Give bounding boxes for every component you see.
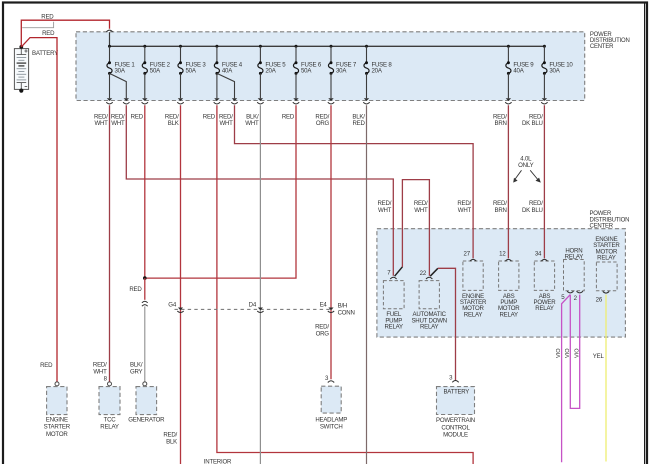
svg-text:HEADLAMP: HEADLAMP [315,416,347,423]
junction dot fuse column 3 [179,45,182,48]
PDC1 output connector at x=296.0 [293,98,298,101]
svg-text:G4: G4 [168,301,177,308]
PDC1 output connector at x=366.5 [364,98,369,101]
PDC1 output connector at x=260.4 [258,98,263,101]
junction dot generator branch [143,276,147,280]
svg-text:BATTERY: BATTERY [444,390,470,396]
wire RED junction to inline connector [144,278,146,300]
svg-text:50A: 50A [186,68,197,75]
junction dot fuse column 9 [507,45,510,48]
wire RED/ORG fuse7 to headlamp switch [330,105,332,379]
wire RED battery to PDC input [21,20,109,47]
svg-text:WHT: WHT [245,120,259,127]
PDC1 output connector at x=144.8 [142,98,147,101]
svg-text:RED: RED [41,13,54,20]
wire RED fuse2 to junction [144,105,146,278]
arrow to RED/BRN wire [515,170,522,179]
svg-text:ONLY: ONLY [518,162,533,169]
svg-text:RED: RED [42,30,55,37]
junction dot fuse column 7 [330,45,333,48]
ABS power relay K5 [534,261,554,290]
wire BLK/RED fuse8 to interior [366,105,368,464]
svg-text:RELAY: RELAY [597,255,616,262]
svg-text:RED: RED [282,113,295,120]
wire VIO horn relay pin 5 [562,295,571,463]
wire YEL engine starter motor relay pin 26 [605,295,607,462]
PDC1 output connector at x=331.0 [328,98,333,101]
svg-text:RED: RED [131,113,144,120]
svg-text:INTERIOR: INTERIOR [204,458,232,464]
svg-text:WHT: WHT [458,207,472,214]
svg-text:SWITCH: SWITCH [320,424,343,431]
svg-text:50A: 50A [150,68,161,75]
leader line for RED label [22,22,53,28]
fuse FUSE 4 40A [216,46,218,63]
svg-text:RELAY: RELAY [100,424,119,431]
svg-text:RED: RED [40,362,53,369]
svg-text:ORG: ORG [316,330,330,337]
svg-text:WHT: WHT [219,120,233,127]
svg-text:E4: E4 [320,301,328,308]
svg-text:MOTOR: MOTOR [46,431,68,438]
svg-text:BRN: BRN [494,207,506,214]
PDC1 output connector at x=216.9 [214,98,219,101]
wire fuse4 second tap [217,73,235,98]
bus bar node [110,45,545,47]
svg-text:DISTRIBUTION: DISTRIBUTION [590,217,630,223]
svg-text:WHT: WHT [111,120,125,127]
fuel pump relay K1 [383,281,404,309]
connector D4 [258,308,263,311]
svg-text:RELAY: RELAY [420,324,439,331]
wire RED junction to fuse6 branch [145,105,296,278]
svg-text:POWER: POWER [590,211,612,217]
B/H connector boundary line [175,308,334,310]
svg-text:RED: RED [129,286,142,293]
svg-text:STARTER: STARTER [44,424,71,431]
jumper lead (black) into pin 7 [395,267,403,276]
svg-text:BLK: BLK [166,438,177,445]
fuse FUSE 3 50A [180,46,182,63]
svg-text:MODULE: MODULE [443,432,468,439]
svg-text:WHT: WHT [94,120,108,127]
fuse FUSE 2 50A [144,46,146,63]
svg-text:TCC: TCC [104,416,117,423]
svg-text:POWERTRAIN: POWERTRAIN [436,417,475,424]
lead pin22 to PCM wire (black) [430,268,438,276]
connector G4 [178,308,183,311]
engine starter motor relay K3 [463,261,483,290]
PDC1 output connector at x=544.4 [542,98,547,101]
wire RED/WHT fuse4 tap to engine starter motor relay pin 27 [235,105,474,258]
svg-text:BATTERY: BATTERY [32,50,58,57]
PDC1 input connector [106,30,112,32]
PDC1 output connector at x=109.5 [107,98,112,101]
wire BLK/WHT fuse5 to interior [259,105,261,464]
svg-text:34: 34 [535,251,542,258]
fuse FUSE 8 20A [366,46,368,63]
svg-text:CENTER: CENTER [590,224,614,230]
svg-text:RELAY: RELAY [384,324,403,331]
svg-text:VIO: VIO [565,348,571,358]
battery B1 [14,49,28,90]
wire RED/BLK fuse3 to interior [180,105,182,464]
junction dot fuse column 6 [295,45,298,48]
ABS pump motor relay K4 [499,261,519,290]
svg-text:22: 22 [420,270,427,277]
PDC1 output connector at x=508.4 [506,98,511,101]
fuse FUSE 5 20A [259,46,261,63]
svg-text:YEL: YEL [593,353,605,360]
svg-text:12: 12 [499,251,506,258]
fuse FUSE 7 30A [330,46,332,63]
wire RED/DK BLU fuse10 to ABS power relay pin 34 [543,105,545,258]
junction dot fuse column 5 [259,45,262,48]
power distribution center box 1 [76,32,585,101]
fuse FUSE 1 30A [109,46,111,63]
PDC1 output connector at x=234.5 [232,98,237,101]
svg-text:20A: 20A [372,68,383,75]
wire RED/WHT fuse1 to TCC relay [109,105,111,382]
junction dot fuse column 1 [108,45,111,48]
wire RED/WHT fuse1 tap to fuel pump relay pin 7 [126,105,393,275]
fuse FUSE 10 30A [543,46,545,63]
junction dot fuse column 8 [365,45,368,48]
svg-text:40A: 40A [513,68,524,75]
arrow to RED/DK BLU wire [530,170,538,179]
wire fuse1 second tap [110,73,127,98]
svg-text:CONTROL: CONTROL [441,424,470,431]
svg-text:26: 26 [596,296,603,303]
wire jumper pin7 to pin22 (RED/WHT loop) [402,180,429,276]
svg-text:BRN: BRN [494,120,506,127]
svg-text:27: 27 [464,251,471,258]
power distribution center box 2 [377,229,626,337]
battery negative terminal dot [19,89,23,93]
svg-text:WHT: WHT [378,207,392,214]
svg-text:CONN: CONN [338,309,355,316]
svg-text:RED: RED [203,113,216,120]
svg-text:DK BLU: DK BLU [522,207,543,214]
svg-text:CENTER: CENTER [590,44,614,50]
svg-text:30A: 30A [336,68,347,75]
svg-text:RELAY: RELAY [499,311,518,318]
svg-text:WHT: WHT [93,368,107,375]
wire VIO loop pin5 to pin2 [570,295,579,409]
svg-text:B/H: B/H [338,302,348,309]
svg-text:ENGINE: ENGINE [46,416,68,423]
svg-text:20A: 20A [265,68,276,75]
svg-text:40A: 40A [222,68,233,75]
svg-text:50A: 50A [301,68,312,75]
PDC1 output connector at x=126.3 [124,98,129,101]
svg-text:VIO: VIO [556,348,562,358]
svg-text:D4: D4 [249,301,257,308]
engine starter motor M1 [55,382,59,386]
svg-text:VIO: VIO [574,348,580,358]
svg-text:ORG: ORG [316,120,330,127]
svg-text:DK BLU: DK BLU [522,120,543,127]
wire BLK/GRY connector to generator [144,306,146,382]
battery positive terminal dot [19,45,23,49]
svg-text:RED: RED [352,120,365,127]
svg-text:BLK: BLK [168,120,179,127]
automatic shut down relay K2 [419,281,439,309]
PDC1 output connector at x=180.5 [178,98,183,101]
fuse FUSE 9 40A [507,46,509,63]
wire RED battery to engine starter motor [21,38,57,382]
junction dot fuse column 10 [543,45,546,48]
wire RED/BRN fuse9 to ABS pump motor relay pin 12 [507,105,509,258]
junction dot fuse column 4 [215,45,218,48]
wire RED fuse4 to interior [217,105,473,464]
svg-text:30A: 30A [549,68,560,75]
junction dot fuse column 2 [143,45,146,48]
svg-text:GENERATOR: GENERATOR [128,416,165,423]
svg-text:WHT: WHT [414,207,428,214]
inline connector C1 (generator wire) [142,301,148,303]
svg-text:GRY: GRY [130,368,143,375]
svg-text:30A: 30A [115,68,126,75]
connector E4 [328,308,333,311]
svg-text:RELAY: RELAY [464,311,483,318]
fuse FUSE 6 50A [295,46,297,63]
svg-text:RELAY: RELAY [535,305,554,312]
wire RED/WHT pin22 to powertrain control module [438,268,456,380]
